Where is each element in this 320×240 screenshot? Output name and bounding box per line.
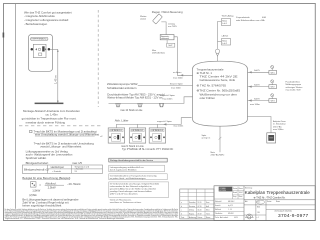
wire relays to tank	[218, 22, 222, 49]
service note 4	[110, 199, 142, 205]
svg-text:d: d	[181, 206, 182, 208]
svg-text:Heizkörper: Heizkörper	[51, 165, 65, 169]
company stamp	[219, 187, 233, 192]
lüfter label	[115, 119, 129, 123]
checkbox note B	[34, 142, 95, 149]
svg-text:DIN ISO: DIN ISO	[228, 213, 234, 215]
mains stem wire	[219, 126, 222, 152]
storage tank	[193, 61, 248, 126]
svg-text:Kabelplan Treppenhauszentrale: Kabelplan Treppenhauszentrale	[245, 190, 310, 195]
svg-text:an Dpr m: an Dpr m	[202, 137, 211, 140]
svg-text:Weiss-Infrarot-Melder Typ AM 8: Weiss-Infrarot-Melder Typ AM 8231 - 12V …	[107, 96, 163, 100]
svg-text:Wohn-Anlag: Wohn-Anlag	[222, 14, 234, 17]
svg-text:(2)Stk: (2)Stk	[29, 193, 37, 197]
svg-text:Wichtige Handhabungsvorschrift: Wichtige Handhabungsvorschrift für den S…	[110, 159, 154, 162]
svg-text:Beispiel für eine Berechnung (: Beispiel für eine Berechnung (Beispiel)	[22, 176, 70, 180]
svg-text:⊕ THZ Nr. / THZ Comfort Nr.: ⊕ THZ Nr. / THZ Comfort Nr.	[254, 197, 286, 200]
wire sensor to electronics	[161, 22, 166, 35]
svg-text:max 1/5: max 1/5	[72, 161, 82, 165]
svg-text:1,45 m: 1,45 m	[54, 75, 58, 84]
regen/wind heading	[152, 10, 183, 14]
service note 2	[109, 174, 167, 180]
heat tape box WT1	[269, 70, 277, 74]
svg-text:Blindgeschwindert: Blindgeschwindert	[26, 161, 49, 165]
revision table	[180, 189, 214, 219]
svg-text:Fussbodenheiz.: Fussbodenheiz.	[286, 81, 301, 83]
svg-text:3704-9-0977: 3704-9-0977	[278, 213, 309, 219]
svg-text:Meldungsgruppe: Meldungsgruppe	[286, 83, 302, 86]
thermostat symbol 2	[271, 80, 274, 85]
svg-text:Name: Name	[239, 188, 243, 190]
svg-text:zulässiges Wertes: zulässiges Wertes	[286, 86, 304, 89]
zirkulationspumpe label	[107, 82, 138, 90]
svg-text:Merz: Merz	[206, 210, 210, 212]
svg-text:Luft 1: Luft 1	[222, 22, 227, 25]
svg-text:4.5.1: 4.5.1	[257, 202, 261, 204]
netz label weather	[152, 50, 165, 55]
svg-text:zweckt Lüftungs- und Wärmeleis: zweckt Lüftungs- und Wärmeleist	[40, 145, 81, 149]
svg-text:e: e	[181, 202, 182, 204]
result note	[22, 193, 78, 208]
svg-text:oder Fühlen: oder Fühlen	[200, 96, 216, 100]
anheft label	[222, 34, 229, 37]
svg-text:LÜFTERBOX 3: LÜFTERBOX 3	[151, 129, 163, 132]
durchlauferhitzer note	[107, 93, 165, 100]
svg-text:04.20: 04.20	[198, 210, 202, 212]
melder count label	[120, 109, 143, 112]
lüfter bus wire to tank	[116, 118, 191, 128]
svg-text:messbar durch externe Fühlung: messbar durch externe Fühlung	[26, 120, 66, 124]
lueftungsparameter note	[26, 150, 73, 160]
svg-text:Abb. Lüfter: Abb. Lüfter	[115, 119, 129, 123]
svg-text:angeschl. Spinn: angeschl. Spinn	[157, 121, 173, 123]
svg-text:09.19: 09.19	[198, 213, 202, 215]
drawing number cell	[266, 209, 315, 219]
svg-text:Name: Name	[276, 201, 280, 203]
svg-text:(230 V und 24 V) zu beachten.: (230 V und 24 V) zu beachten.	[110, 193, 139, 196]
svg-text:SoKTr: SoKTr	[254, 97, 260, 100]
svg-text:Ergänz.: Ergänz.	[189, 213, 195, 215]
socket box	[267, 133, 276, 143]
lüfter box 3	[149, 128, 165, 143]
svg-text:max N Stück in Linie: max N Stück in Linie	[121, 144, 144, 148]
svg-text:v. 1: v. 1	[257, 217, 259, 219]
heating wire 1	[248, 69, 269, 73]
svg-text:max 100m: max 100m	[250, 104, 260, 106]
wire 1 labels	[173, 72, 183, 79]
sheet cells	[244, 206, 266, 220]
svg-text:ELTRON: ELTRON	[219, 190, 226, 192]
svg-text:SoKTr: SoKTr	[254, 84, 260, 87]
svg-text:keiner zugehörige Anschlußheit: keiner zugehörige Anschlußheit	[22, 204, 61, 208]
melder bus wire	[109, 97, 193, 104]
svg-text:Regen / Wind-Steuerung: Regen / Wind-Steuerung	[152, 10, 183, 14]
dash separator	[19, 125, 101, 127]
svg-text:EN 806-2: EN 806-2	[228, 201, 235, 203]
heating wire 2	[248, 84, 269, 88]
svg-text:max 100m: max 100m	[173, 126, 183, 128]
svg-text:WT2: WT2	[271, 87, 275, 89]
svg-text:Timm: Timm	[206, 213, 211, 215]
svg-text:- Betriebsanzeigen: - Betriebsanzeigen	[24, 22, 48, 26]
thermostat symbol 3	[271, 94, 274, 99]
svg-text:an.Spinn: an.Spinn	[173, 72, 182, 74]
calc example heading	[22, 176, 70, 180]
mains labels	[202, 134, 225, 157]
svg-text:Zusperrbetrieb: Zusperrbetrieb	[236, 16, 250, 19]
svg-text:max 3,86m: max 3,86m	[273, 129, 284, 131]
svg-text:max 10,34 / 50V: max 10,34 / 50V	[286, 90, 302, 92]
melder symbol 2	[138, 103, 142, 106]
melder symbol 3	[159, 103, 163, 106]
svg-text:Luft 2: Luft 2	[222, 42, 227, 45]
mounting note text	[22, 109, 81, 124]
svg-text:max 100m: max 100m	[173, 77, 183, 79]
svg-text:elektronik: elektronik	[161, 37, 169, 40]
svg-text:11.20: 11.20	[198, 202, 202, 204]
svg-text:+ Kontakt: + Kontakt	[52, 170, 61, 173]
svg-text:eine Umschaltung zweckt Lüftun: eine Umschaltung zweckt Lüftungs- und Wä…	[35, 132, 99, 136]
svg-text:Gehäusewanne Serie, 3mE: Gehäusewanne Serie, 3mE	[200, 78, 236, 82]
svg-text:Netz: Netz	[211, 151, 215, 154]
svg-text:Name: Name	[206, 217, 210, 219]
svg-text:m. Steckdose: m. Steckdose	[273, 123, 286, 126]
svg-text:station: station	[140, 18, 147, 21]
svg-text:Steuerl. Spinn: Steuerl. Spinn	[170, 82, 184, 85]
wire electronics to tank	[174, 37, 193, 77]
wire pump to tank	[138, 85, 193, 87]
approval grid	[232, 187, 244, 199]
socket note	[273, 120, 286, 131]
svg-text:⊕ THZ Nr. 5764/5765: ⊕ THZ Nr. 5764/5765	[197, 84, 227, 88]
svg-text:Spitz: Spitz	[202, 134, 207, 137]
svg-text:Gerät am Hauswasser-: Gerät am Hauswasser-	[110, 199, 132, 202]
svg-text:Spürbrett wirkEn: Spürbrett wirkEn	[26, 156, 47, 160]
svg-text:TREPPENHAUSZ.: TREPPENHAUSZ.	[31, 38, 47, 41]
heat tape box WT2	[269, 85, 277, 89]
svg-text:WT3: WT3	[271, 101, 275, 103]
wohnanlage label	[222, 14, 234, 17]
thermostat symbol 1	[271, 66, 274, 71]
zusperr note	[236, 16, 266, 22]
drop marker	[215, 49, 219, 61]
svg-text:07.20: 07.20	[198, 206, 202, 208]
svg-text:durch zugelassene Elektriker.: durch zugelassene Elektriker.	[110, 169, 138, 172]
tank label text	[197, 67, 241, 99]
blind note	[26, 161, 83, 165]
selection table	[22, 165, 102, 173]
svg-text:Aufputz-Dose: Aufputz-Dose	[273, 120, 286, 123]
svg-text:LÜFTERBOX 2: LÜFTERBOX 2	[131, 129, 143, 132]
heat tape box WT3	[269, 99, 277, 103]
svg-text:Kern: Kern	[206, 202, 209, 204]
service note 3	[109, 182, 169, 198]
fussboden note	[286, 81, 304, 91]
wire 2 labels	[170, 82, 184, 89]
svg-text:2,5kW: 2,5kW	[48, 186, 56, 190]
service instruction header	[109, 158, 167, 162]
svg-text:oder Rohrboxs-Anw. max r10A: oder Rohrboxs-Anw. max r10A	[236, 19, 265, 22]
svg-text:i.Anhet: i.Anhet	[222, 34, 229, 37]
checkbox note A	[30, 130, 100, 137]
svg-text:kg 0,75: kg 0,75	[228, 205, 233, 207]
svg-text:LÜFTERBOX 1: LÜFTERBOX 1	[110, 129, 122, 132]
svg-text:an jedem Gerät - mit Betriebsa: an jedem Gerät - mit Betriebsanzeigen.	[110, 177, 147, 180]
svg-text:STIEBEL: STIEBEL	[219, 188, 226, 190]
service note 1	[109, 165, 165, 172]
svg-text:WT1: WT1	[271, 72, 275, 74]
floor line	[35, 103, 64, 105]
material rows	[214, 199, 244, 219]
svg-text:angeschl. Spinn: angeschl. Spinn	[160, 95, 176, 97]
leitung label	[168, 22, 177, 28]
legal disclaimer block	[5, 208, 179, 220]
calc formula	[30, 181, 81, 192]
THZ comfort wall controller	[28, 34, 52, 71]
svg-text:Schaltkontakt anfordern: Schaltkontakt anfordern	[107, 86, 137, 90]
relay box luft 2	[222, 39, 231, 46]
svg-text:anschluss an Trinkwasser siche: anschluss an Trinkwasser sichern.	[110, 201, 142, 204]
svg-text:Umbau: Umbau	[189, 210, 194, 212]
svg-text:14.04: 14.04	[239, 192, 243, 194]
svg-text:- 2K /Stück: - 2K /Stück	[67, 182, 81, 186]
svg-text:Blindgeschwind(-r1): Blindgeschwind(-r1)	[24, 167, 49, 171]
svg-text:max 100m: max 100m	[171, 87, 181, 89]
intro note text	[24, 10, 72, 26]
heating wire 3	[248, 97, 269, 106]
svg-text:04.20: 04.20	[234, 217, 238, 219]
scale row	[244, 200, 315, 221]
wire label x2	[100, 136, 103, 138]
lüfter type note	[121, 144, 173, 151]
selp box	[167, 40, 175, 47]
svg-text:b: b	[181, 213, 182, 215]
wetterstation label	[140, 15, 147, 21]
svg-text:230 V AC: 230 V AC	[273, 125, 282, 128]
wire to socket box	[247, 117, 271, 133]
svg-text:SoKTr: SoKTr	[254, 69, 260, 72]
wetterstation sensor	[153, 14, 163, 24]
svg-text:1 : 10: 1 : 10	[228, 209, 232, 211]
lüfter box 2	[129, 128, 145, 143]
svg-text:1,5kW: 1,5kW	[32, 188, 40, 192]
wire 3 labels	[160, 95, 176, 101]
svg-text:max 10 Stück à Linie: max 10 Stück à Linie	[120, 109, 143, 112]
svg-text:Typ PTH/DHE 18 SLi mit anbr. P: Typ PTH/DHE 18 SLi mit anbr. PTY 4520A D…	[122, 147, 173, 151]
relay box luft 1	[222, 19, 231, 26]
svg-text:aus TWS: aus TWS	[168, 26, 177, 28]
svg-text:230V AC/5(1): 230V AC/5(1)	[152, 51, 165, 54]
dashed column separator	[97, 10, 99, 107]
melder symbol 1	[116, 103, 120, 106]
svg-text:40Ω: 40Ω	[262, 17, 266, 19]
mounting height dimension wire	[50, 49, 59, 103]
svg-text:Revision: Revision	[189, 206, 195, 208]
auswerte electronics box	[160, 35, 174, 41]
svg-text:max 100m: max 100m	[163, 99, 173, 101]
title block outline	[214, 186, 315, 221]
svg-text:230V AC/50Hz: 230V AC/50Hz	[211, 154, 225, 157]
drawing title	[244, 187, 315, 200]
lüfter box 1	[108, 128, 124, 143]
